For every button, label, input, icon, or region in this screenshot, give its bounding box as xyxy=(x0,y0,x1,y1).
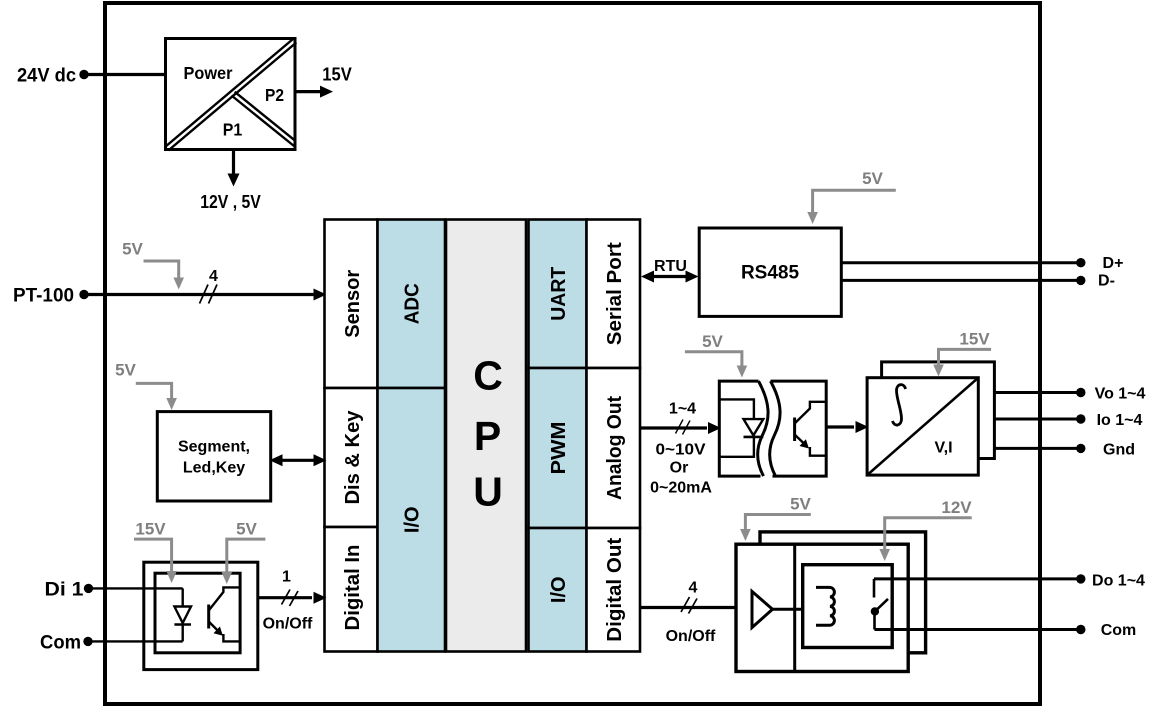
CPU cell Dis & Key xyxy=(325,388,378,527)
5V supply arrow (analog isolator) xyxy=(685,352,742,367)
svg-text:5V: 5V xyxy=(862,169,883,188)
svg-text:On/Off: On/Off xyxy=(263,616,313,633)
terminal dot Io xyxy=(1076,414,1085,423)
wire Io 1~4 xyxy=(994,418,1080,421)
svg-text:15V: 15V xyxy=(959,330,990,349)
terminal dot PT-100 xyxy=(79,290,88,299)
CPU cell I/O right xyxy=(529,528,587,652)
driver buffer triangle xyxy=(752,591,773,627)
relay driver front box xyxy=(736,544,908,671)
isolator phototransistor base xyxy=(793,418,796,442)
RTU bus double arrow xyxy=(651,275,688,278)
bus slash marks digital out xyxy=(681,597,690,612)
svg-text:PWM: PWM xyxy=(548,422,570,475)
svg-text:Di 1: Di 1 xyxy=(45,579,84,600)
5V supply arrow (sensor) xyxy=(144,261,179,279)
5V supply arrow (display) xyxy=(136,383,172,399)
phototransistor collector wire xyxy=(209,587,240,610)
svg-text:Vo 1~4: Vo 1~4 xyxy=(1095,386,1146,403)
relay switch fixed contact xyxy=(873,579,876,598)
svg-text:D-: D- xyxy=(1098,273,1115,290)
svg-text:1~4: 1~4 xyxy=(669,401,696,418)
bus slash marks sensor (4 wires) xyxy=(200,285,209,304)
V,I converter back box (stacked) xyxy=(882,362,995,459)
terminal dot Com output xyxy=(1076,625,1085,634)
wire Vo 1~4 xyxy=(994,391,1080,394)
svg-text:P1: P1 xyxy=(223,120,243,140)
wire Di 1 input xyxy=(89,587,183,589)
svg-text:0~10V: 0~10V xyxy=(656,442,706,459)
svg-text:Serial Port: Serial Port xyxy=(604,242,626,345)
terminal dot Do xyxy=(1076,574,1085,583)
svg-text:15V: 15V xyxy=(135,520,166,539)
terminal dot D+ xyxy=(1076,258,1085,267)
svg-text:15V: 15V xyxy=(322,64,352,85)
CPU cell Analog Out xyxy=(587,368,641,528)
svg-text:UART: UART xyxy=(548,267,570,321)
wire isolator to V,I converter with arrow xyxy=(826,425,854,428)
CPU cell PWM xyxy=(529,368,587,528)
svg-text:Do 1~4: Do 1~4 xyxy=(1092,572,1145,589)
svg-text:Sensor: Sensor xyxy=(342,270,364,338)
wire analog out to isolator with arrow xyxy=(640,426,707,429)
CPU cell Serial Port xyxy=(587,220,641,369)
15V supply arrow (V,I) xyxy=(939,349,992,366)
wire D+ xyxy=(841,261,1080,264)
isolator phototransistor collector wire xyxy=(795,402,827,424)
CPU cell Digital Out xyxy=(587,528,641,652)
svg-text:RS485: RS485 xyxy=(741,263,800,284)
svg-text:RTU: RTU xyxy=(654,258,687,275)
svg-text:5V: 5V xyxy=(115,361,136,380)
svg-text:0~20mA: 0~20mA xyxy=(650,480,712,497)
CPU cell ADC xyxy=(378,220,446,389)
svg-text:5V: 5V xyxy=(236,520,257,539)
wire 24V dc input xyxy=(84,73,166,76)
12V supply arrow (relay) xyxy=(885,518,972,551)
terminal dot 24V dc xyxy=(79,70,88,79)
power supply module U-PWR box xyxy=(166,39,296,150)
power module diagonal divider (double line BL-TR) xyxy=(165,39,293,147)
isolator phototransistor emitter with arrow xyxy=(795,435,806,446)
V,I converter front box xyxy=(867,378,978,475)
svg-text:ADC: ADC xyxy=(401,283,423,324)
terminal dot Vo xyxy=(1076,388,1085,397)
terminal dot Gnd xyxy=(1076,444,1085,453)
CPU cell Digital In xyxy=(325,527,378,652)
svg-text:4: 4 xyxy=(689,580,698,597)
wire Do 1~4 xyxy=(874,577,1080,580)
relay driver back box (stacked) xyxy=(760,532,926,653)
analog isolator right half (with isolation curve) xyxy=(770,381,826,476)
CPU cell I/O left xyxy=(378,388,446,652)
display/keyboard block Segment,Led,Key xyxy=(157,412,270,501)
CPU cell UART xyxy=(529,220,587,369)
5V supply arrow (RS485) xyxy=(813,190,896,213)
svg-text:C: C xyxy=(473,353,503,399)
svg-text:I/O: I/O xyxy=(401,506,423,533)
svg-text:U: U xyxy=(473,469,503,515)
digital input isolator outer box xyxy=(144,562,258,669)
relay box xyxy=(803,565,893,648)
svg-text:4: 4 xyxy=(209,268,218,285)
wire digital input to CPU with arrow xyxy=(258,596,312,599)
svg-text:Gnd: Gnd xyxy=(1103,442,1135,459)
svg-text:On/Off: On/Off xyxy=(666,628,716,645)
integral symbol xyxy=(893,385,906,425)
terminal dot Com xyxy=(83,637,92,646)
output arrow 15V xyxy=(296,90,322,93)
phototransistor emitter with arrow xyxy=(209,622,220,633)
isolator LED loop wires xyxy=(719,399,754,419)
svg-text:Com: Com xyxy=(40,632,81,653)
svg-text:Io 1~4: Io 1~4 xyxy=(1097,412,1143,429)
svg-text:Com: Com xyxy=(1101,622,1137,639)
svg-text:Dis & Key: Dis & Key xyxy=(342,410,364,505)
driver divider line xyxy=(793,544,796,671)
svg-text:V,I: V,I xyxy=(934,440,952,457)
LED cathode wire xyxy=(181,625,183,642)
svg-text:P: P xyxy=(474,413,501,459)
relay coil xyxy=(816,587,834,625)
opto phototransistor base xyxy=(207,605,210,629)
LED anode wire xyxy=(181,588,183,607)
svg-text:Digital Out: Digital Out xyxy=(604,537,626,641)
wire digital out to driver with arrow xyxy=(640,606,736,609)
terminal dot Di 1 xyxy=(84,584,93,593)
enclosure border frame xyxy=(105,3,1040,704)
output arrow 12V,5V xyxy=(232,150,235,175)
5V supply arrow (opto output side) xyxy=(227,539,266,573)
svg-text:1: 1 xyxy=(282,569,291,586)
svg-text:5V: 5V xyxy=(702,332,723,351)
wire PT-100 sensor input with arrow xyxy=(84,293,315,296)
svg-text:12V: 12V xyxy=(941,498,972,517)
terminal dot D- xyxy=(1076,276,1085,285)
15V supply arrow (opto input side) xyxy=(134,539,172,572)
display data bus (double arrow) xyxy=(282,459,314,462)
wire buffer to relay xyxy=(773,608,803,611)
svg-text:12V , 5V: 12V , 5V xyxy=(200,191,261,212)
svg-text:I/O: I/O xyxy=(548,576,570,603)
bus slash marks analog out xyxy=(676,420,684,434)
relay switch pivot dot xyxy=(871,607,879,615)
svg-text:5V: 5V xyxy=(122,240,143,259)
svg-text:Power: Power xyxy=(184,63,233,83)
svg-text:Segment,: Segment, xyxy=(178,439,250,456)
svg-text:5V: 5V xyxy=(790,495,811,514)
svg-text:PT-100: PT-100 xyxy=(13,286,74,307)
power module diagonal divider (double line center-BR) xyxy=(232,96,295,147)
svg-text:Analog Out: Analog Out xyxy=(604,396,626,500)
svg-text:Led,Key: Led,Key xyxy=(183,460,245,477)
svg-text:Or: Or xyxy=(670,460,689,477)
svg-text:P2: P2 xyxy=(265,85,284,105)
relay switch lower contact xyxy=(873,615,876,630)
isolator LED diode (triangle + bar) xyxy=(744,419,764,435)
opto LED diode (triangle + cathode bar) xyxy=(174,607,191,624)
analog isolator left half (with isolation curve) xyxy=(719,381,768,476)
wire Com output xyxy=(875,628,1081,631)
RS485 transceiver block xyxy=(699,228,841,316)
CPU core column xyxy=(446,220,526,652)
digital input optocoupler inner box xyxy=(155,573,240,653)
relay switch blade xyxy=(875,599,888,612)
V,I converter diagonal xyxy=(867,378,978,475)
svg-text:Digital In: Digital In xyxy=(342,545,364,631)
wire Gnd xyxy=(994,447,1080,450)
svg-text:D+: D+ xyxy=(1103,255,1124,272)
CPU cell Sensor xyxy=(325,220,378,389)
wire Com input xyxy=(88,640,183,642)
svg-text:24V dc: 24V dc xyxy=(17,66,76,87)
5V supply arrow (driver) xyxy=(745,515,810,531)
bus slash marks digital in xyxy=(282,590,291,605)
wire D- xyxy=(841,279,1080,282)
